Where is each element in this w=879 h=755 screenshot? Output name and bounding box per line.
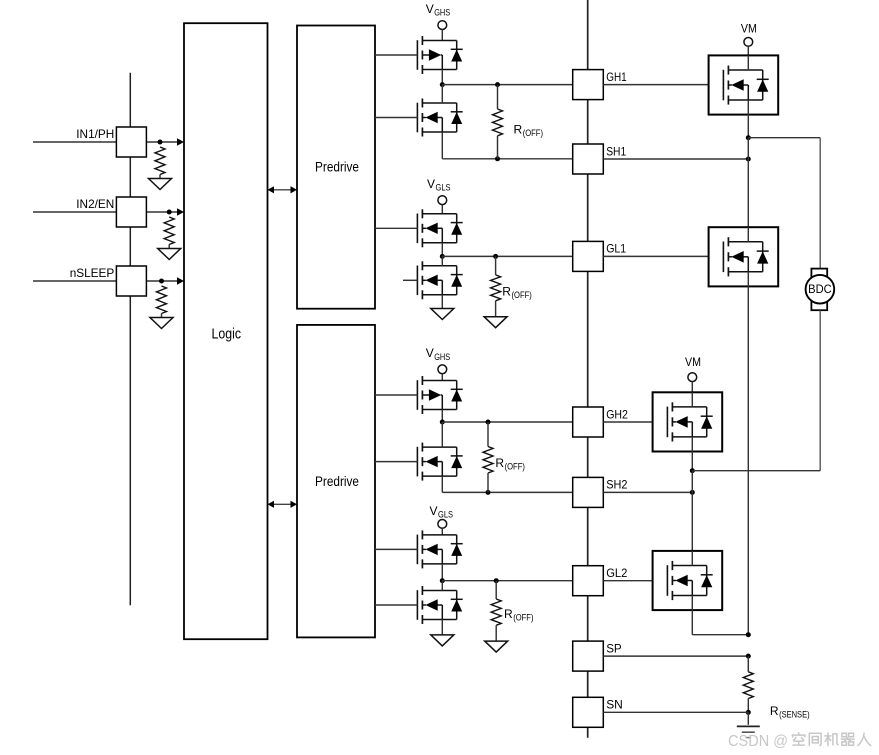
svg-text:(OFF): (OFF) bbox=[523, 128, 543, 138]
svg-text:(OFF): (OFF) bbox=[512, 290, 532, 300]
svg-text:SH2: SH2 bbox=[606, 478, 627, 492]
svg-text:IN2/EN: IN2/EN bbox=[76, 197, 114, 211]
svg-text:SP: SP bbox=[606, 641, 622, 655]
svg-text:GL2: GL2 bbox=[606, 566, 627, 580]
svg-text:GHS: GHS bbox=[434, 352, 450, 362]
svg-text:VM: VM bbox=[741, 22, 757, 36]
svg-text:Logic: Logic bbox=[212, 326, 242, 343]
svg-text:R: R bbox=[514, 123, 523, 137]
svg-text:GLS: GLS bbox=[438, 509, 453, 519]
svg-text:VM: VM bbox=[685, 355, 701, 369]
svg-text:GH2: GH2 bbox=[606, 407, 628, 421]
svg-text:SH1: SH1 bbox=[606, 144, 626, 158]
svg-text:V: V bbox=[430, 504, 438, 518]
svg-text:R: R bbox=[770, 704, 779, 718]
svg-text:GHS: GHS bbox=[434, 8, 450, 18]
svg-text:V: V bbox=[427, 177, 435, 191]
svg-text:V: V bbox=[426, 2, 434, 16]
svg-text:V: V bbox=[426, 346, 434, 360]
svg-text:GH1: GH1 bbox=[606, 70, 627, 84]
svg-text:R: R bbox=[495, 456, 504, 470]
svg-text:nSLEEP: nSLEEP bbox=[70, 266, 115, 280]
svg-text:R: R bbox=[504, 607, 513, 621]
svg-text:CSDN @: CSDN @ bbox=[728, 733, 788, 750]
svg-text:SN: SN bbox=[606, 698, 623, 712]
svg-text:R: R bbox=[502, 284, 511, 298]
svg-text:Predrive: Predrive bbox=[315, 474, 359, 489]
svg-text:IN1/PH: IN1/PH bbox=[76, 127, 114, 141]
svg-text:Predrive: Predrive bbox=[315, 159, 359, 174]
svg-text:(OFF): (OFF) bbox=[513, 612, 533, 622]
svg-text:(OFF): (OFF) bbox=[505, 462, 525, 472]
svg-text:(SENSE): (SENSE) bbox=[779, 710, 810, 720]
svg-text:BDC: BDC bbox=[808, 284, 832, 296]
svg-text:GL1: GL1 bbox=[606, 242, 626, 256]
svg-text:GLS: GLS bbox=[436, 183, 451, 193]
